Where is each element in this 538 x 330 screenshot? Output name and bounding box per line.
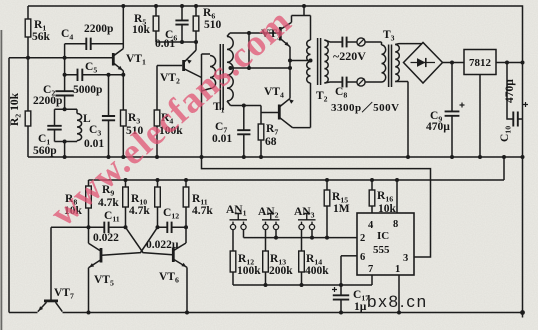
tank circuit top wire xyxy=(55,108,78,110)
wire: ground bus y157 xyxy=(28,156,523,158)
svg-text:6: 6 xyxy=(360,252,365,263)
wire: T2 center tap xyxy=(290,60,311,62)
capacitor C3 xyxy=(102,75,115,157)
transformer T1 secondary xyxy=(227,33,233,106)
pushbutton AN3 xyxy=(298,214,316,230)
transformer T1 primary xyxy=(202,54,216,157)
capacitor C4 xyxy=(65,38,124,50)
transistor VT7 xyxy=(38,301,63,312)
wire: rail feed to T2 line xyxy=(303,6,305,16)
svg-text:~220V: ~220V xyxy=(333,49,366,63)
svg-text:555: 555 xyxy=(373,244,390,256)
op-amp U1 IC 555 xyxy=(357,213,414,275)
junction VT1 collector at rail xyxy=(121,4,125,8)
svg-text:0.01: 0.01 xyxy=(155,38,175,50)
resistor R11 xyxy=(183,180,189,227)
junction R10/C12 xyxy=(156,225,160,229)
junction pin8 at rail xyxy=(395,178,399,182)
wire: loop top right xyxy=(347,41,357,43)
svg-text:1: 1 xyxy=(395,264,400,275)
svg-text:1M: 1M xyxy=(333,203,350,215)
wire: multivib rail riser xyxy=(503,157,505,180)
junction VT5 emitter/bus xyxy=(87,311,91,315)
svg-text:bx8.cn: bx8.cn xyxy=(367,292,428,311)
transformer T1 core xyxy=(220,44,223,110)
wire: T3 top to bridge xyxy=(395,43,421,46)
transistor VT3 xyxy=(280,16,291,47)
svg-text:56k: 56k xyxy=(32,31,51,43)
junction C6/wire42 xyxy=(180,40,184,44)
cross-coupling wire C12 to VT5 base xyxy=(102,227,158,255)
wire: VT7 base riser xyxy=(50,227,52,299)
junction R15 at rail xyxy=(325,178,329,182)
svg-text:4.7k: 4.7k xyxy=(192,205,213,217)
junction AN3/trigger xyxy=(310,236,314,240)
junction tank/bus xyxy=(63,155,67,159)
capacitor C17 xyxy=(333,285,349,313)
transistor VT4 xyxy=(279,98,294,127)
transformer T2 secondary xyxy=(324,40,330,83)
wire: 7812 ground pin xyxy=(479,75,481,158)
junction R14/timing xyxy=(300,283,304,287)
capacitor C5 xyxy=(65,69,124,81)
bridge rectifier D1 xyxy=(404,43,443,84)
svg-text:100k: 100k xyxy=(237,265,261,277)
C10 polarity plus xyxy=(523,102,528,107)
junction emitters/T1 tap xyxy=(288,66,292,70)
svg-text:4.7k: 4.7k xyxy=(129,205,150,217)
svg-text:0.01: 0.01 xyxy=(84,138,104,150)
junction VT6 emitter/bus xyxy=(185,311,189,315)
wire: bottom bus xyxy=(63,312,523,314)
resistor R3 xyxy=(121,75,127,157)
svg-text:8: 8 xyxy=(393,219,398,230)
wire: right rail lower xyxy=(522,157,524,313)
junction R6/VT2 xyxy=(194,40,198,44)
capacitor C10 xyxy=(507,63,523,127)
resistor R1 xyxy=(25,6,31,58)
capacitor C6 xyxy=(175,6,188,42)
capacitor C11 xyxy=(89,222,126,233)
junction AN2/trigger xyxy=(274,236,278,240)
svg-text:3300p／500V: 3300p／500V xyxy=(331,101,400,114)
capacitor C9 xyxy=(445,63,460,158)
junction rail riser/bus xyxy=(502,155,506,159)
wire: AN2 left drop xyxy=(265,230,267,251)
wire: AN1 left drop xyxy=(232,230,234,251)
socket terminal top xyxy=(357,38,365,46)
junction C17/bus xyxy=(339,311,343,315)
transistor VT1 xyxy=(113,49,123,75)
wire: pin6 link xyxy=(341,255,357,257)
junction pin1/bus xyxy=(397,311,401,315)
junction C7/bus xyxy=(242,155,246,159)
wire: corner stub xyxy=(522,313,524,318)
svg-text:470µ: 470µ xyxy=(504,79,516,103)
tank circuit bottom wire xyxy=(55,141,78,143)
pushbutton AN2 xyxy=(262,214,280,230)
transformer T2 primary xyxy=(307,16,311,128)
wire: T1 base drop xyxy=(248,33,250,68)
wire: VT1 collector riser xyxy=(122,6,124,49)
capacitor C8b xyxy=(342,77,346,88)
junction R15/trigger xyxy=(325,236,329,240)
junction C9/bus xyxy=(450,155,454,159)
junction R4/bus xyxy=(155,155,159,159)
regulator U 7812 xyxy=(464,50,496,75)
junction C3/bus xyxy=(107,155,111,159)
junction base drop top xyxy=(247,31,251,35)
svg-text:560p: 560p xyxy=(33,145,57,157)
junction R11 at rail xyxy=(184,178,188,182)
wire: trigger bus to pin2 xyxy=(244,237,358,239)
junction emitter/C3 xyxy=(107,73,111,77)
wire: 7812 output xyxy=(496,62,523,64)
junction C5/C2 node xyxy=(63,73,67,77)
junction rail/bus right xyxy=(521,155,525,159)
wire: loop bottom to T3 xyxy=(365,81,381,83)
junction R9/C11 xyxy=(124,225,128,229)
capacitor C1 xyxy=(47,109,61,141)
wire: AN2 right drop xyxy=(275,230,277,238)
junction tank bottom xyxy=(63,140,67,144)
wire: left rail xyxy=(8,58,10,313)
svg-text:510: 510 xyxy=(204,19,222,31)
junction base/C4-C2 riser xyxy=(63,56,67,60)
resistor R2 xyxy=(25,58,31,157)
resistor R16 xyxy=(369,180,375,213)
junction R10 at rail xyxy=(156,178,160,182)
wire: C4-C2 riser xyxy=(64,44,66,75)
wire: bottom bus left of VT7 xyxy=(9,312,38,314)
wire: 220V loop top xyxy=(330,41,342,43)
junction R16 at rail xyxy=(370,178,374,182)
resistor R9 xyxy=(123,180,129,227)
junction AC2/bus xyxy=(406,155,410,159)
wire: VT1 emitter node xyxy=(82,74,123,76)
resistor R6 xyxy=(193,6,199,42)
junction emitters/T2 tap xyxy=(288,59,292,63)
wire: VT7 base run xyxy=(51,226,89,228)
junction output/rail xyxy=(521,61,525,65)
cross-coupling wire C11 to VT6 base xyxy=(126,227,173,255)
wire: VT3 collector to T2 xyxy=(292,15,311,17)
wire: VT4 base xyxy=(261,112,278,114)
junction R9 at rail xyxy=(124,178,128,182)
resistor R10 xyxy=(155,180,161,227)
junction R11/C12 xyxy=(184,225,188,229)
junction R7/bus xyxy=(259,155,263,159)
transformer T3 secondary xyxy=(395,45,399,82)
capacitor C8a xyxy=(342,37,346,48)
svg-text:470µ: 470µ xyxy=(426,121,450,133)
wire: AN1 right drop xyxy=(243,230,245,238)
junction T1 center tap xyxy=(229,66,233,70)
junction rail/T2 feed xyxy=(302,4,306,8)
wire: 220V loop bottom xyxy=(330,81,342,83)
wire: pin1 drop xyxy=(398,275,400,313)
svg-text:200k: 200k xyxy=(269,265,293,277)
junction C9 top xyxy=(450,61,454,65)
wire: pin6 drop xyxy=(340,256,342,285)
junction bus/right rail corner xyxy=(520,310,525,315)
junction T2 center tap xyxy=(309,59,313,63)
left scan edge line xyxy=(0,30,2,330)
svg-text:2200p: 2200p xyxy=(84,23,113,35)
svg-text:R2​ 10k: R2​ 10k xyxy=(9,92,23,126)
junction C10 branch xyxy=(505,61,509,65)
wire: T1 top to VT3 base xyxy=(230,32,279,34)
wire: AN3 left drop xyxy=(301,230,303,251)
wire: VT4 collector run xyxy=(293,127,311,129)
wire: loop bottom right xyxy=(347,81,357,83)
wire: T1 center tap xyxy=(230,67,290,69)
resistor R7 xyxy=(258,106,264,158)
wire: left rail top link xyxy=(9,57,28,59)
wire: bridge + output xyxy=(443,62,465,64)
transformer T3 primary xyxy=(382,42,386,82)
pushbutton AN1 xyxy=(230,214,248,230)
svg-text:3: 3 xyxy=(403,253,408,264)
capacitor C12 xyxy=(158,222,187,233)
svg-text:0.022: 0.022 xyxy=(93,232,119,244)
wire: AN3 right drop xyxy=(311,230,313,238)
junction R1/R2/base xyxy=(26,56,30,60)
svg-text:IC: IC xyxy=(377,230,389,242)
wire: timing bottom bus xyxy=(233,284,372,286)
resistor R5 xyxy=(153,6,159,42)
wire: emitter common vertical xyxy=(289,47,291,99)
svg-text:5000p: 5000p xyxy=(73,84,102,96)
svg-text:400k: 400k xyxy=(305,265,329,277)
C17 polarity plus xyxy=(332,287,337,292)
wire: T3 bottom lead xyxy=(395,81,408,83)
junction base drop bottom xyxy=(247,66,251,70)
wire: pin8 riser xyxy=(396,180,398,213)
socket terminal bottom xyxy=(357,78,365,86)
svg-text:10k: 10k xyxy=(132,24,151,36)
resistor R12 xyxy=(230,251,236,285)
resistor R8 xyxy=(86,180,92,227)
wire: bridge AC2 drop xyxy=(407,82,409,158)
junction R3/bus xyxy=(121,155,125,159)
transistor VT5 xyxy=(89,227,102,312)
svg-text:4: 4 xyxy=(368,220,374,231)
junction R6 at rail xyxy=(194,4,198,8)
wire: R5-C6-R6 node xyxy=(156,41,196,43)
junction R5 at rail xyxy=(154,4,158,8)
junction C7 top xyxy=(242,104,246,108)
wire: tank to ground bus xyxy=(64,142,66,158)
junction T1/bus corner xyxy=(200,155,204,159)
resistor R4 xyxy=(154,66,160,158)
transformer T2 core xyxy=(318,38,321,85)
svg-text:1µ: 1µ xyxy=(354,301,367,313)
svg-text:68: 68 xyxy=(265,136,277,148)
junction 7812 pin/bus xyxy=(478,155,482,159)
wire: bus to 555 pin3 link xyxy=(202,157,431,257)
wire: top power rail + right rail xyxy=(28,6,523,157)
resistor R14 xyxy=(299,251,305,285)
svg-text:7812: 7812 xyxy=(469,57,492,69)
wire: loop right edge top xyxy=(365,41,381,43)
svg-text:0.01: 0.01 xyxy=(212,133,232,145)
resistor R13 xyxy=(263,251,269,285)
junction R13/timing xyxy=(264,283,268,287)
junction C17/timing xyxy=(339,283,343,287)
C9 polarity plus xyxy=(460,103,465,108)
junction tank top xyxy=(63,107,67,111)
junction C6 at rail xyxy=(180,4,184,8)
wire: VT2 base from R4 xyxy=(157,65,182,67)
svg-text:2: 2 xyxy=(360,233,365,244)
wire: pin7 drop xyxy=(371,275,373,285)
transformer T3 core xyxy=(389,45,392,88)
transistor VT6 xyxy=(173,227,187,312)
wire: VT1 base xyxy=(28,57,112,59)
wire: multivibrator rail y180 xyxy=(89,179,505,181)
svg-text:2200p: 2200p xyxy=(33,95,62,107)
transistor VT2 xyxy=(184,42,202,78)
capacitor C2 xyxy=(55,75,73,110)
resistor R15 xyxy=(324,180,330,238)
capacitor C7 xyxy=(237,106,250,158)
junction emitter/R3 xyxy=(121,73,125,77)
inductor L xyxy=(77,109,82,141)
svg-text:7: 7 xyxy=(368,264,373,275)
junction R8/C11 xyxy=(87,225,91,229)
wire: T1 bottom to R7/VT4 xyxy=(231,105,262,107)
